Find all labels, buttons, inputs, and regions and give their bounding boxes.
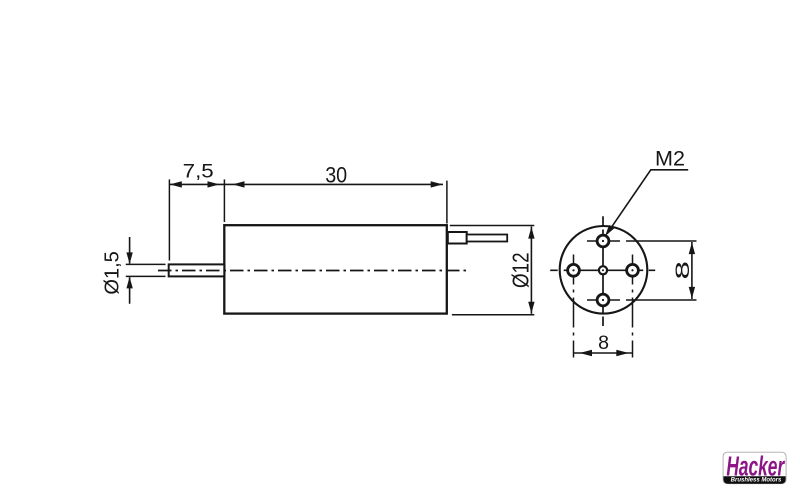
arrowhead right-8 bottom (689, 287, 695, 299)
svg-text:Ø1,5: Ø1,5 (100, 251, 123, 295)
bottom hole horizontal centerline / extension for 8 (587, 299, 697, 301)
wire collar (right side) (448, 232, 467, 244)
Hacker logo box (723, 450, 786, 483)
wire lead (right side thin) (467, 235, 508, 242)
motor body (side view rectangle) (224, 225, 446, 313)
bottom 8 dimension line (574, 352, 633, 354)
top hole horizontal centerline / extension for 8 (587, 240, 697, 242)
svg-text:7,5: 7,5 (183, 161, 214, 183)
left hole vertical centerline / extension for bottom 8 (573, 255, 575, 358)
end view: main vertical centerline (602, 216, 604, 326)
extension lines Ø1,5 (126, 264, 166, 276)
arrowhead 7,5 left (170, 181, 182, 187)
arrowhead 7,5 right (208, 181, 220, 187)
arrowhead 30 right (431, 181, 443, 187)
end view outline circle Ø12 (560, 226, 648, 314)
extension lines Ø12 (450, 226, 535, 315)
mounting hole M2 left (568, 264, 580, 276)
mounting hole M2 right (627, 264, 639, 276)
M2 leader arrowhead (605, 225, 614, 236)
Hacker logo black bar (724, 476, 786, 484)
svg-text:Ø12: Ø12 (508, 252, 534, 288)
dimension line Ø12 (530, 227, 532, 314)
right hole vertical centerline / extension for bottom 8 (632, 255, 634, 358)
center shaft hole (end view) (599, 266, 607, 274)
svg-text:8: 8 (672, 261, 694, 280)
arrowhead Ø12 bottom (points down) (528, 302, 534, 314)
arrowhead 30 left (233, 181, 245, 187)
right 8 dimension line (691, 242, 693, 299)
svg-text:30: 30 (325, 162, 347, 187)
svg-text:M2: M2 (655, 147, 685, 170)
M2 leader line (607, 170, 688, 234)
extension line middle (7,5 / 30 dims) (223, 179, 225, 222)
motor shaft (left, Ø1,5) (169, 264, 225, 276)
svg-text:8: 8 (598, 332, 609, 354)
end view: main horizontal centerline (550, 269, 655, 271)
svg-text:Brushless Motors: Brushless Motors (731, 477, 782, 484)
mounting hole M2 bottom (597, 294, 609, 306)
extension line left (7,5 dim) (168, 179, 170, 260)
dimension line 7,5 and 30 (169, 183, 443, 185)
arrowhead Ø12 top (points up) (528, 227, 534, 239)
mounting hole M2 top (597, 235, 609, 247)
arrowhead right-8 top (689, 243, 695, 255)
arrowhead bottom-8 right (616, 350, 629, 356)
arrowhead bottom-8 left (580, 350, 593, 356)
arrowhead Ø1,5 top (points down) (126, 252, 132, 264)
extension line right (30 dim) (446, 181, 448, 224)
centerline of motor axis (dash-dot) (158, 270, 470, 272)
dimension line Ø1,5 (vertical, arrows outside) (129, 237, 131, 304)
arrowhead Ø1,5 bottom (points up) (126, 277, 132, 289)
